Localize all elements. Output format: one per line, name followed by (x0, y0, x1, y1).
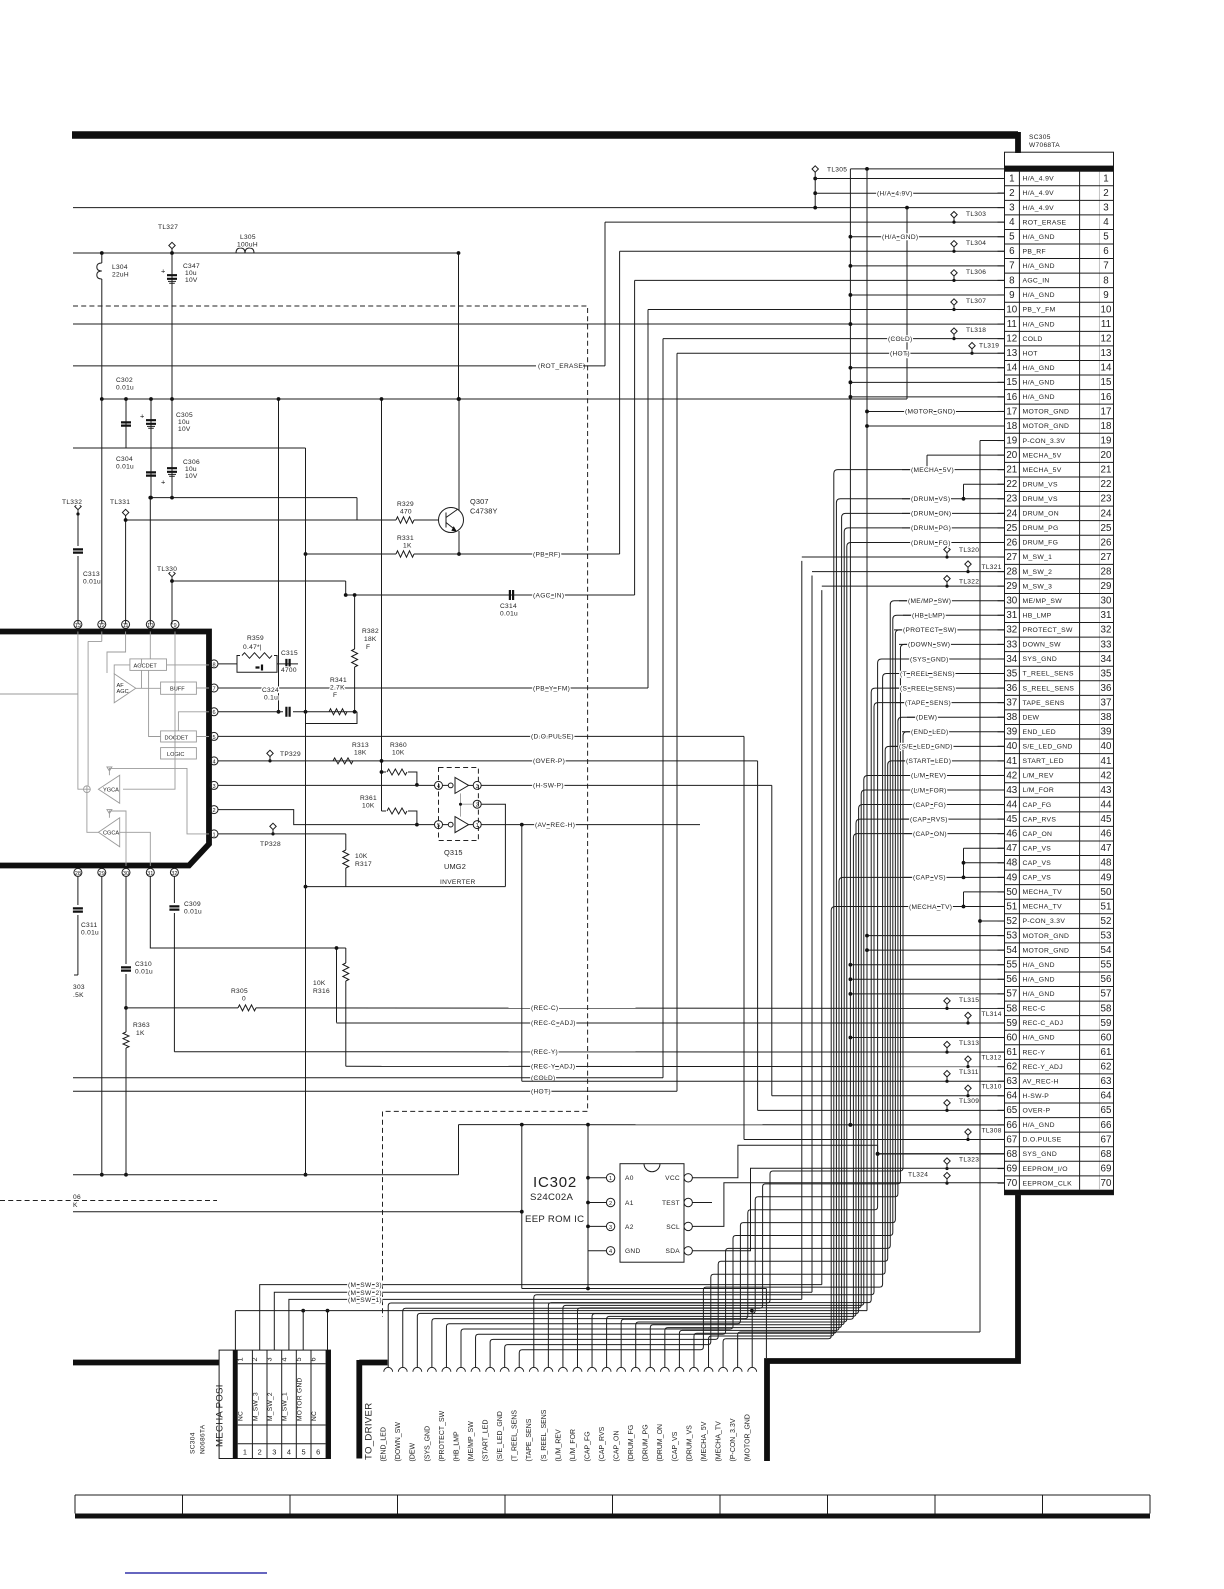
svg-text:R359: R359 (247, 635, 264, 642)
svg-text:39: 39 (1101, 727, 1112, 738)
resistor R359 parallel loop (237, 656, 277, 673)
IC301 inner DOCDET box (161, 731, 197, 742)
svg-text:(T_REEL_SENS): (T_REEL_SENS) (900, 671, 955, 678)
svg-text:C313: C313 (83, 571, 100, 578)
wire pin56 H/A_GND stub (850, 978, 1004, 980)
svg-text:29: 29 (99, 871, 105, 877)
svg-text:1: 1 (235, 1357, 244, 1361)
Q315 pin 5 (435, 821, 443, 829)
svg-text:0.01u: 0.01u (135, 969, 153, 976)
svg-text:(DRUM_FG): (DRUM_FG) (911, 540, 951, 547)
wire rail GND row (73, 447, 306, 449)
test point TL322 (944, 575, 979, 587)
svg-text:TL312: TL312 (982, 1055, 1002, 1062)
svg-text:66: 66 (1101, 1120, 1112, 1131)
svg-text:DOCDET: DOCDET (165, 736, 189, 742)
svg-text:47: 47 (1006, 843, 1017, 854)
svg-text:61: 61 (1006, 1047, 1017, 1058)
svg-text:7: 7 (1009, 261, 1014, 272)
svg-text:EEP ROM IC: EEP ROM IC (525, 1214, 584, 1225)
svg-text:(DEW: (DEW (410, 1442, 417, 1461)
resistor R331 + PB_RF wire (306, 553, 397, 555)
wire pin23 DRUM_VS (902, 498, 1005, 500)
wire IC pin6 + C324 (218, 711, 283, 713)
hook terminal CAP_ON (617, 1367, 626, 1371)
svg-text:12: 12 (1101, 334, 1112, 345)
svg-text:TL332: TL332 (62, 499, 82, 506)
svg-text:12: 12 (99, 623, 105, 629)
IC301 right pin 7 (210, 684, 218, 692)
svg-text:67: 67 (1006, 1134, 1017, 1145)
svg-text:AV_REC-H: AV_REC-H (1023, 1078, 1059, 1085)
svg-text:50: 50 (1006, 887, 1017, 898)
svg-text:0.47*|: 0.47*| (243, 644, 262, 651)
wire net PROTECT_SW drop and fan (446, 630, 903, 1368)
wire IC302 pin8 VCC to pin 68 (692, 1145, 1004, 1178)
svg-text:9: 9 (1103, 290, 1108, 301)
svg-text:64: 64 (1101, 1091, 1112, 1102)
capacitor C302 (125, 399, 127, 448)
wire pin50-51 step (963, 892, 965, 907)
wire pin43 L/M_FOR (902, 789, 1005, 791)
svg-text:+: + (161, 267, 165, 276)
Q315 pin 4 (435, 781, 443, 789)
svg-text:8: 8 (1103, 275, 1109, 286)
wire IC pin8 (218, 663, 237, 665)
svg-text:(P-CON_3.3V: (P-CON_3.3V (730, 1418, 737, 1461)
svg-text:13: 13 (75, 623, 81, 629)
resistor R382 vertical (354, 595, 356, 649)
transistor Q315 dashed box (439, 768, 479, 841)
wire M_SW_2 from SC304 (274, 576, 812, 1351)
svg-text:37: 37 (1101, 698, 1112, 709)
hook terminal DRUM_VS (690, 1367, 699, 1371)
svg-text:C309: C309 (184, 901, 201, 908)
wire pin55 H/A_GND stub (850, 964, 1004, 966)
svg-text:DRUM_ON: DRUM_ON (1023, 511, 1059, 518)
inductor L305 (236, 248, 254, 253)
svg-text:NC: NC (238, 1411, 245, 1421)
wire 4.9V rail drop at right (906, 208, 908, 399)
wire net DRUM_FG drop and fan (636, 542, 911, 1367)
svg-text:0: 0 (242, 996, 246, 1003)
wire IC pin31 to REC-C_ADJ (150, 876, 345, 1022)
wire pin15 H/A_GND stub (850, 381, 1004, 383)
svg-text:2: 2 (1009, 188, 1014, 199)
svg-text:25: 25 (1006, 523, 1017, 534)
svg-text:44: 44 (1101, 799, 1112, 810)
svg-text:BUFF: BUFF (170, 687, 185, 693)
svg-text:4: 4 (1103, 217, 1109, 228)
svg-text:15: 15 (1101, 377, 1112, 388)
resistor R363 (123, 1032, 129, 1048)
svg-text:CAP_ON: CAP_ON (1023, 831, 1053, 838)
capacitor C314 (510, 590, 513, 600)
svg-text:54: 54 (1006, 945, 1017, 956)
svg-text:(DEW): (DEW) (916, 715, 937, 722)
wire pin37 TAPE_SENS (896, 702, 1005, 704)
svg-text:HB_LMP: HB_LMP (1023, 612, 1052, 619)
IC302 pin 3 (606, 1222, 614, 1230)
wire IC302 pin3 stub (588, 1225, 606, 1227)
svg-text:(COLD): (COLD) (888, 336, 913, 343)
svg-text:T_REEL_SENS: T_REEL_SENS (1023, 671, 1074, 678)
wire pin39 END_LED (902, 731, 1005, 733)
svg-text:25: 25 (1101, 523, 1112, 534)
svg-text:CGCA: CGCA (103, 831, 119, 837)
board outline top thick bar (72, 131, 1018, 139)
svg-text:5: 5 (212, 735, 215, 741)
svg-text:(AGC_IN): (AGC_IN) (533, 592, 564, 599)
svg-text:H/A_GND: H/A_GND (1023, 991, 1055, 998)
svg-text:49: 49 (1006, 872, 1017, 883)
svg-text:(REC-Y_ADJ): (REC-Y_ADJ) (531, 1064, 575, 1071)
capacitor C310 + R363 chain (125, 876, 127, 964)
wire HOT (73, 1090, 677, 1092)
wire net SYS_GND drop and fan (432, 659, 910, 1367)
svg-text:2: 2 (212, 808, 215, 814)
title block table (75, 1495, 1150, 1519)
GND drop vertical x305 (305, 448, 307, 1175)
svg-text:.5K: .5K (73, 992, 84, 999)
svg-text:34: 34 (1006, 654, 1017, 665)
svg-text:TL310: TL310 (982, 1084, 1002, 1091)
op-amp IC301 outline (0, 632, 209, 866)
svg-text:ME/MP_SW: ME/MP_SW (1023, 598, 1063, 605)
svg-text:38: 38 (1101, 712, 1112, 723)
svg-text:303: 303 (73, 984, 85, 991)
IC301 right pin 8 (210, 660, 218, 668)
svg-text:DRUM_PG: DRUM_PG (1023, 525, 1059, 532)
svg-text:66: 66 (1006, 1120, 1017, 1131)
svg-text:(DOWN_SW): (DOWN_SW) (908, 642, 950, 649)
wire IC pin2 to inverter pin5 (218, 810, 435, 825)
svg-text:TL318: TL318 (966, 327, 986, 334)
svg-text:54: 54 (1101, 945, 1112, 956)
IC301 bottom pin 30 (122, 868, 130, 876)
svg-text:(SYS_GND): (SYS_GND) (910, 656, 949, 663)
svg-text:(REC-Y): (REC-Y) (531, 1049, 558, 1056)
connector SC305 outer box (1005, 152, 1114, 1195)
svg-text:K: K (73, 1202, 78, 1209)
wire net L/M_REV drop and fan (563, 775, 911, 1367)
wire net CAP_ON drop and fan (621, 834, 913, 1368)
wire pin26 DRUM_FG (902, 541, 1005, 543)
svg-text:C4738Y: C4738Y (470, 507, 498, 516)
svg-text:2: 2 (1103, 188, 1108, 199)
svg-text:10u: 10u (185, 466, 197, 473)
svg-text:20: 20 (1006, 450, 1017, 461)
wire pin42 L/M_REV (902, 774, 1005, 776)
wire M_SW_2 to pin 28 (812, 571, 1005, 573)
IC301 inner sum node (84, 786, 91, 793)
IC301 right pin 3 (210, 781, 218, 789)
wire net P-CON_3.3V to hook (738, 1332, 980, 1367)
svg-text:TP328: TP328 (260, 841, 281, 848)
svg-text:3: 3 (1103, 203, 1109, 214)
svg-text:(S/E_LED_GND): (S/E_LED_GND) (899, 744, 953, 751)
svg-text:(CAP_RVS: (CAP_RVS (599, 1426, 606, 1461)
svg-text:15: 15 (1006, 377, 1017, 388)
IC301 top pin 13 (74, 620, 82, 628)
svg-text:M_SW_3: M_SW_3 (252, 1392, 259, 1421)
wire IC302 pin6 SCL to pin 70 (692, 1183, 1004, 1227)
svg-text:SCL: SCL (666, 1224, 680, 1231)
svg-text:55: 55 (1006, 960, 1017, 971)
svg-text:(MECHA_TV): (MECHA_TV) (909, 904, 952, 911)
hook terminal PROTECT_SW (442, 1367, 451, 1371)
svg-text:R305: R305 (231, 988, 248, 995)
svg-text:(L/M_FOR): (L/M_FOR) (911, 787, 947, 794)
wire pin44 CAP_FG (904, 804, 1005, 806)
wire pin22 DRUM_VS (964, 483, 1005, 485)
hook terminal CAP_FG (588, 1367, 597, 1371)
test point TL323 (944, 1157, 979, 1171)
svg-text:TL304: TL304 (966, 240, 986, 247)
svg-text:(S/E_LED_GND: (S/E_LED_GND (497, 1411, 504, 1461)
svg-text:TL305: TL305 (827, 167, 847, 174)
svg-text:TL308: TL308 (982, 1127, 1002, 1134)
svg-text:A2: A2 (625, 1224, 634, 1231)
svg-text:1: 1 (243, 1448, 247, 1457)
svg-text:R341: R341 (330, 677, 347, 684)
wire AV_REC-H drop to pin 63 (521, 825, 523, 1082)
svg-text:1: 1 (212, 832, 215, 838)
hook terminal CAP_VS (675, 1367, 684, 1371)
resistor R329 (396, 517, 414, 523)
svg-text:TL320: TL320 (959, 547, 979, 554)
svg-text:TL306: TL306 (966, 269, 986, 276)
svg-text:1: 1 (476, 823, 479, 829)
svg-text:(DRUM_PG: (DRUM_PG (643, 1424, 650, 1461)
svg-text:R363: R363 (133, 1022, 150, 1029)
IC301 inner CGCA amp (98, 818, 119, 847)
pull-up bus from 4.9V rail (381, 399, 383, 811)
wire pin46 CAP_ON (904, 833, 1005, 835)
svg-text:42: 42 (1101, 770, 1112, 781)
svg-text:3: 3 (609, 1225, 612, 1231)
SC304 column lines (251, 1350, 253, 1458)
wire GND rail bottom (73, 1174, 459, 1176)
wire AGC_IN vertical to pin 8 (634, 280, 636, 595)
IC301 bottom pin 31 (146, 868, 154, 876)
svg-text:(PB_RF): (PB_RF) (533, 551, 561, 558)
svg-text:PB_Y_FM: PB_Y_FM (1023, 307, 1056, 314)
svg-text:2: 2 (476, 803, 479, 809)
svg-text:SC304: SC304 (190, 1432, 197, 1454)
svg-text:100uH: 100uH (237, 242, 258, 249)
GND top tie wire (850, 168, 1004, 170)
Q315 pin 3 (473, 781, 481, 789)
svg-text:(END_LED): (END_LED) (911, 729, 949, 736)
wire pin7 H/A_GND stub (850, 265, 1004, 267)
svg-text:3: 3 (476, 784, 479, 790)
wire rail ROT_ERASE (73, 365, 536, 367)
svg-text:(HOT): (HOT) (531, 1089, 551, 1096)
svg-text:1K: 1K (136, 1030, 145, 1037)
svg-text:(HB_LMP: (HB_LMP (453, 1431, 460, 1462)
resistor R317 vertical (345, 834, 347, 850)
wire TL327 vertical (171, 253, 173, 498)
svg-text:61: 61 (1101, 1047, 1112, 1058)
wire net TAPE_SENS drop and fan (534, 703, 905, 1368)
hook terminal HB_LMP (457, 1367, 466, 1371)
svg-text:Q307: Q307 (470, 497, 489, 506)
wire net DRUM_PG drop and fan (650, 528, 911, 1367)
svg-text:47: 47 (1101, 843, 1112, 854)
svg-text:F: F (333, 692, 337, 699)
IC301 right pin 2 (210, 806, 218, 814)
svg-text:5: 5 (302, 1448, 306, 1457)
svg-text:(S_REEL_SENS: (S_REEL_SENS (541, 1409, 548, 1461)
Q315 inverter A (443, 777, 469, 793)
IC302 pin 6 (684, 1222, 692, 1230)
svg-text:(END_LED: (END_LED (381, 1427, 388, 1461)
svg-text:TL303: TL303 (966, 211, 986, 218)
svg-text:62: 62 (1101, 1062, 1112, 1073)
svg-text:11: 11 (1101, 319, 1111, 330)
svg-text:6: 6 (212, 710, 215, 716)
svg-text:6: 6 (1009, 246, 1015, 257)
connector SC305 rows (1005, 170, 1114, 172)
svg-text:3: 3 (272, 1448, 276, 1457)
svg-text:(CAP_VS: (CAP_VS (672, 1431, 679, 1461)
wire pin19 P-CON_3.3V (980, 440, 1005, 442)
svg-text:REC-Y_ADJ: REC-Y_ADJ (1023, 1064, 1063, 1071)
capacitor C309 + wire IC pin32 (173, 876, 175, 903)
svg-text:C305: C305 (176, 412, 193, 419)
test point TL309 (944, 1098, 979, 1112)
svg-text:(DRUM_PG): (DRUM_PG) (911, 525, 951, 532)
wire IC pin29 down to GND line (101, 876, 103, 1174)
svg-text:(DOWN_SW: (DOWN_SW (395, 1422, 402, 1462)
svg-text:28: 28 (1101, 567, 1112, 578)
svg-text:ROT_ERASE: ROT_ERASE (1023, 219, 1067, 226)
svg-text:2: 2 (609, 1201, 612, 1207)
svg-text:(CAP_ON): (CAP_ON) (913, 831, 947, 838)
svg-text:26: 26 (1101, 537, 1112, 548)
hook terminal SYS_GND (427, 1367, 436, 1371)
test point TL312 (965, 1055, 1002, 1069)
svg-text:DRUM_VS: DRUM_VS (1023, 481, 1059, 488)
svg-text:(ROT_ERASE): (ROT_ERASE) (538, 363, 586, 370)
svg-text:10K: 10K (392, 750, 405, 757)
IC302 pin 1 (606, 1174, 614, 1182)
svg-text:7: 7 (212, 686, 215, 692)
svg-text:R329: R329 (397, 501, 414, 508)
wire Q307 collector (458, 399, 460, 510)
svg-text:60: 60 (1006, 1032, 1017, 1043)
svg-text:51: 51 (1006, 901, 1017, 912)
wire MOTOR_GND pin 53 (867, 935, 1005, 937)
wire pin20 MECHA_5V (927, 454, 1005, 456)
svg-text:(REC-C): (REC-C) (531, 1005, 558, 1012)
svg-text:52: 52 (1006, 916, 1017, 927)
svg-text:+: + (161, 478, 165, 487)
svg-text:TL313: TL313 (959, 1040, 979, 1047)
IC301 top pin 12 (98, 620, 106, 628)
Q315 inverter B (443, 817, 469, 833)
svg-text:M_SW_1: M_SW_1 (282, 1392, 289, 1421)
wire net S_REEL_SENS drop and fan (548, 688, 900, 1367)
svg-text:(MECHA_5V: (MECHA_5V (701, 1421, 708, 1461)
svg-text:4700: 4700 (281, 667, 297, 674)
wire pin50 MECHA_TV (964, 891, 1005, 893)
wire pin52 P-CON stub (980, 920, 1005, 922)
svg-text:4: 4 (287, 1448, 291, 1457)
wire M_SW_3 from SC304 (260, 590, 822, 1350)
svg-text:21: 21 (1101, 465, 1112, 476)
board outline right step to connector (1015, 132, 1021, 153)
svg-text:R313: R313 (352, 742, 369, 749)
connector SC305 header black band (1005, 166, 1114, 172)
svg-text:COLD: COLD (1023, 336, 1043, 343)
svg-text:A0: A0 (625, 1175, 634, 1182)
svg-text:48: 48 (1101, 858, 1112, 869)
svg-text:(START_LED: (START_LED (483, 1420, 490, 1462)
svg-text:H/A_GND: H/A_GND (1023, 1035, 1055, 1042)
H/A_GND bus vertical (849, 169, 851, 1125)
wire net DRUM_ON drop and fan (665, 513, 911, 1367)
svg-text:C310: C310 (135, 961, 152, 968)
wire pin9 H/A_GND stub (850, 294, 1004, 296)
svg-text:64: 64 (1006, 1091, 1017, 1102)
svg-text:10K: 10K (313, 980, 326, 987)
wire pin31 HB_LMP (903, 614, 1005, 616)
svg-text:57: 57 (1006, 989, 1017, 1000)
capacitor C313 (77, 514, 79, 546)
svg-text:10V: 10V (185, 277, 198, 284)
svg-text:REC-Y: REC-Y (1023, 1049, 1046, 1056)
svg-text:CAP_VS: CAP_VS (1023, 845, 1052, 852)
svg-text:35: 35 (1006, 668, 1017, 679)
svg-text:L304: L304 (112, 264, 128, 271)
IC301 right pin 6 (210, 708, 218, 716)
svg-text:L/M_FOR: L/M_FOR (1023, 787, 1055, 794)
IC301 bottom pin 28 (74, 868, 82, 876)
wire inverter pin2 feedback (481, 804, 505, 886)
wire net MECHA_TV drop and fan (723, 906, 909, 1367)
test point TL318 (951, 327, 986, 340)
resistor R305 + wire REC-C (126, 1007, 238, 1009)
svg-text:1K: 1K (403, 543, 412, 550)
wire IC pin11 vertical (125, 520, 127, 624)
svg-text:SDA: SDA (666, 1248, 681, 1255)
wire M_SW_1 to pin 27 (802, 556, 1005, 558)
svg-text:TL319: TL319 (979, 343, 999, 350)
svg-text:4: 4 (437, 784, 440, 790)
test point TL319 (969, 343, 999, 355)
svg-text:GND: GND (625, 1248, 641, 1255)
wire pin48 stub (964, 862, 1005, 864)
svg-text:(CAP_FG): (CAP_FG) (913, 802, 946, 809)
svg-text:38: 38 (1006, 712, 1017, 723)
svg-text:1: 1 (1009, 173, 1014, 184)
wire pin20-21 step (926, 455, 928, 470)
IC301 bottom pin 32 (170, 868, 178, 876)
wire R317 bottom to GND drop (306, 886, 506, 888)
wire 4.9V feed to C324 (278, 399, 280, 712)
svg-text:MECHA POSI: MECHA POSI (215, 1384, 226, 1447)
hook terminal S/E_LED_GND (500, 1367, 509, 1371)
svg-text:H/A_GND: H/A_GND (1023, 321, 1055, 328)
svg-text:9: 9 (1009, 290, 1014, 301)
capacitor C306 (171, 448, 173, 498)
svg-text:(S_REEL_SENS): (S_REEL_SENS) (900, 685, 955, 692)
svg-text:C304: C304 (116, 456, 133, 463)
wire pin40 S/E_LED_GND (890, 745, 1005, 747)
Q315 pin 2 (473, 800, 481, 808)
